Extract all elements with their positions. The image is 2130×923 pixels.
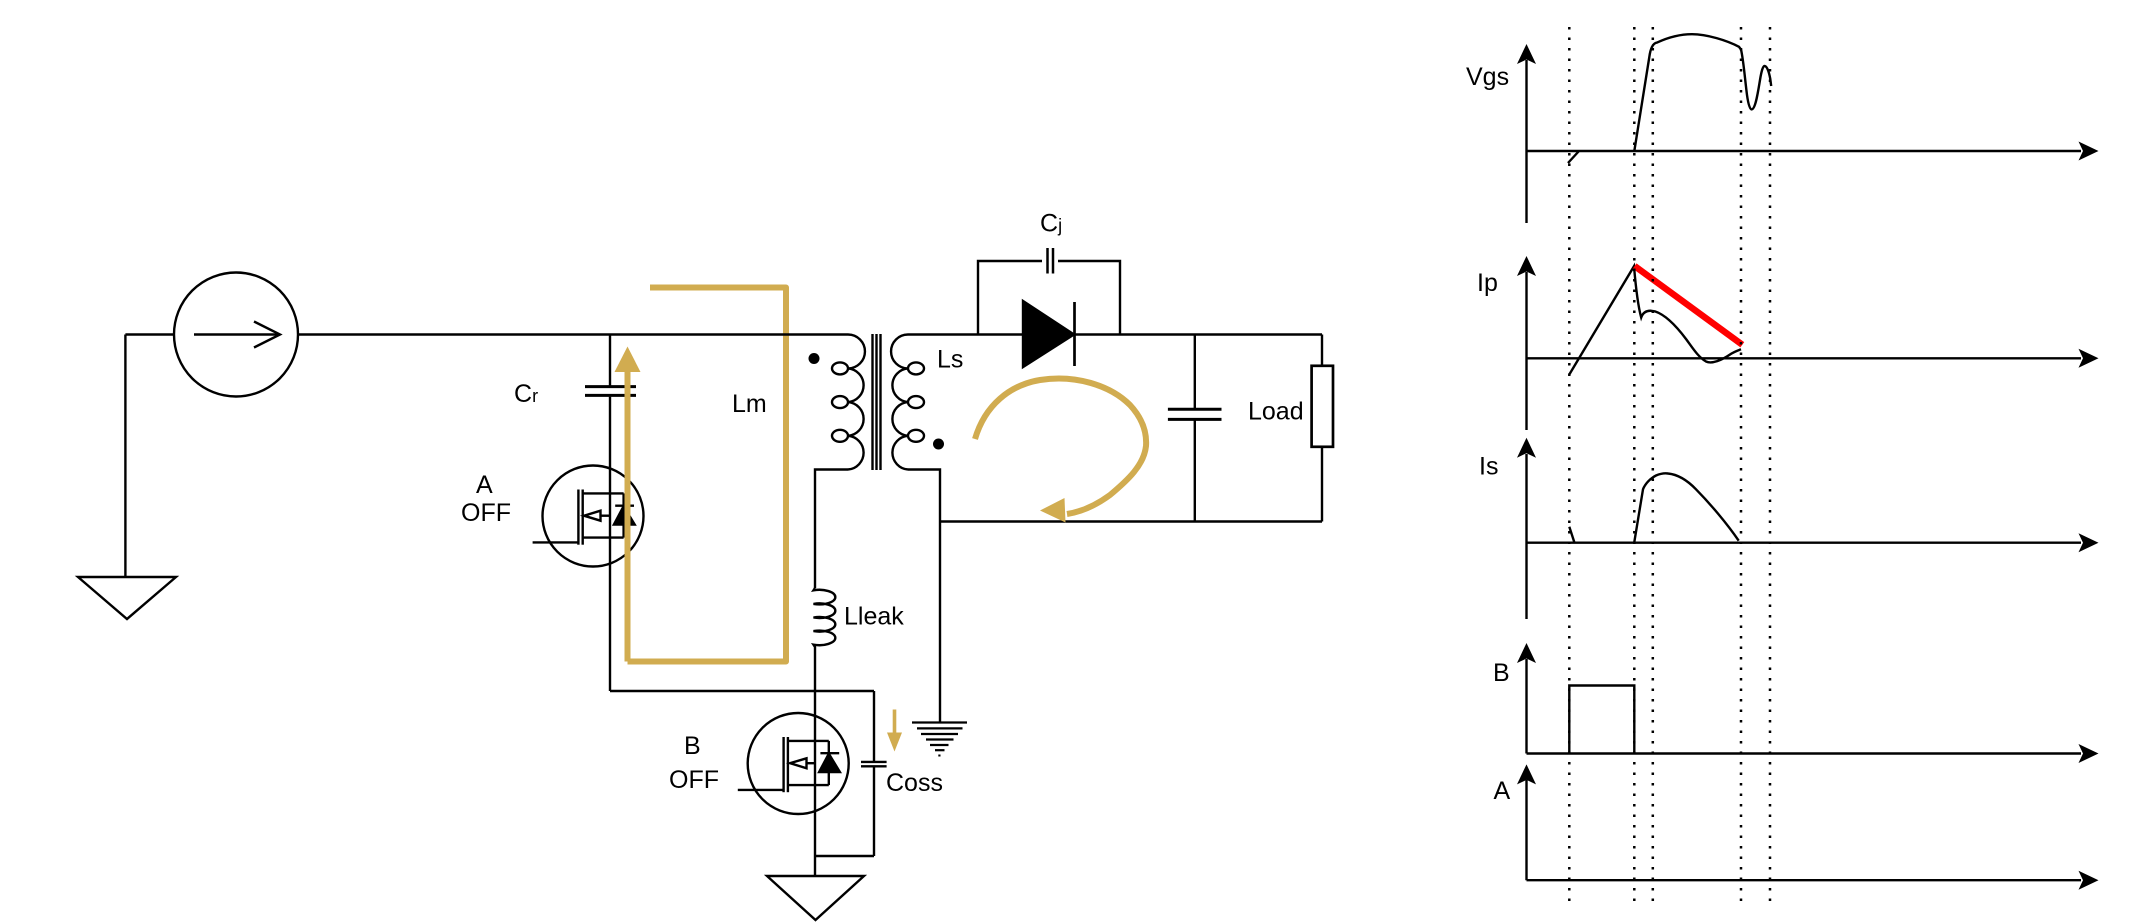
arrowhead Is x-axis — [2079, 533, 2099, 552]
wire: Cj loop top/right — [1058, 261, 1120, 335]
wire: top rail from source to transformer primary — [298, 333, 848, 335]
transformer core — [871, 334, 873, 470]
wire: output bottom rail — [940, 520, 1322, 522]
capacitor Cout branch — [1194, 335, 1196, 410]
wire: diode to load — [1075, 333, 1323, 335]
timing line t2 — [1633, 27, 1636, 901]
gold arrow down (Coss current) — [893, 710, 897, 735]
arrowhead Ip y-axis — [1517, 256, 1536, 276]
ground GND3 (earth) — [912, 723, 967, 757]
gold ellipse arrow (secondary loop current) — [975, 379, 1146, 514]
wire: secondary bottom lead — [908, 470, 940, 723]
wire: Cj loop left/top — [978, 261, 1042, 335]
svg-text:Load: Load — [1248, 398, 1304, 426]
arrowhead Ip x-axis — [2079, 349, 2099, 368]
transformer T1 secondary winding — [891, 335, 924, 470]
timing line t1 — [1568, 27, 1571, 901]
wire: Cr to MOSFET A drain — [609, 397, 611, 466]
arrowhead B y-axis — [1517, 643, 1536, 663]
red overlay line (Ip ideal) — [1635, 266, 1743, 345]
axis Vgs — [1525, 60, 1527, 223]
gold loop (Lm circulating current, under wires) — [628, 288, 787, 662]
waveform axes — [1527, 60, 2082, 880]
svg-text:Lleak: Lleak — [844, 603, 904, 631]
axis B — [1525, 659, 1527, 754]
waveform B pulse — [1569, 686, 1634, 754]
svg-text:Ip: Ip — [1477, 269, 1498, 297]
capacitor Cj — [1048, 248, 1054, 274]
svg-text:Is: Is — [1479, 453, 1498, 481]
waveform Vgs — [1568, 34, 1771, 163]
inductor Lleak — [814, 588, 836, 691]
svg-text:Coss: Coss — [886, 769, 943, 797]
timing line t3 — [1652, 27, 1655, 901]
ground GND2 — [767, 876, 864, 920]
axis A — [1525, 780, 1527, 880]
dotted timing lines — [1569, 27, 1770, 901]
wire: secondary top lead — [908, 333, 1023, 335]
wire: primary bottom lead — [815, 470, 848, 589]
arrowhead A y-axis — [1517, 764, 1536, 784]
diode D1 — [1023, 301, 1074, 367]
wire: to bottom ground — [814, 856, 816, 876]
transformer T1 primary winding — [832, 335, 865, 470]
capacitor Cr — [585, 387, 636, 396]
arrowhead B x-axis — [2079, 744, 2099, 763]
wire: current source left lead — [125, 333, 174, 335]
timing line t4 — [1740, 27, 1743, 901]
svg-text:A: A — [1494, 777, 1511, 805]
transistor A (MOSFET) — [533, 466, 644, 567]
svg-text:Ls: Ls — [937, 346, 963, 374]
svg-text:OFF: OFF — [669, 766, 719, 794]
node dot primary — [809, 353, 820, 364]
wire: MOSFET A vertical through — [609, 466, 611, 691]
node dot secondary — [933, 439, 944, 450]
wire: Cr branch vertical — [609, 335, 611, 389]
wire: bottom rail B/Coss — [815, 855, 874, 857]
transistor B (MOSFET) — [738, 713, 849, 814]
waveform Ip — [1569, 266, 1741, 374]
axis Is — [1525, 454, 1527, 619]
axis Ip — [1525, 272, 1527, 430]
ground GND1 — [78, 577, 176, 619]
svg-text:B: B — [1493, 659, 1510, 687]
arrowhead A x-axis — [2079, 871, 2099, 890]
capacitor Coss — [873, 691, 875, 762]
wire: left vertical to ground — [124, 335, 126, 578]
current source I1 — [174, 273, 298, 397]
svg-text:A: A — [476, 471, 493, 499]
waveform Is — [1569, 473, 1738, 542]
svg-text:OFF: OFF — [461, 499, 511, 527]
timing line t5 — [1769, 27, 1772, 901]
arrowhead Is y-axis — [1517, 438, 1536, 458]
svg-text:Vgs: Vgs — [1466, 63, 1509, 91]
wire: bottom horizontal from A to Coss — [610, 690, 874, 692]
resistor Load — [1321, 335, 1323, 366]
svg-text:B: B — [684, 732, 701, 760]
svg-text:Lm: Lm — [732, 390, 767, 418]
gold arrow up (Lm loop left side, over wires) — [625, 371, 631, 662]
axis arrowheads — [1517, 44, 2099, 890]
arrowhead Vgs y-axis — [1517, 44, 1536, 64]
arrowhead Vgs x-axis — [2079, 142, 2099, 161]
wire: MOSFET B vertical through — [814, 691, 816, 856]
